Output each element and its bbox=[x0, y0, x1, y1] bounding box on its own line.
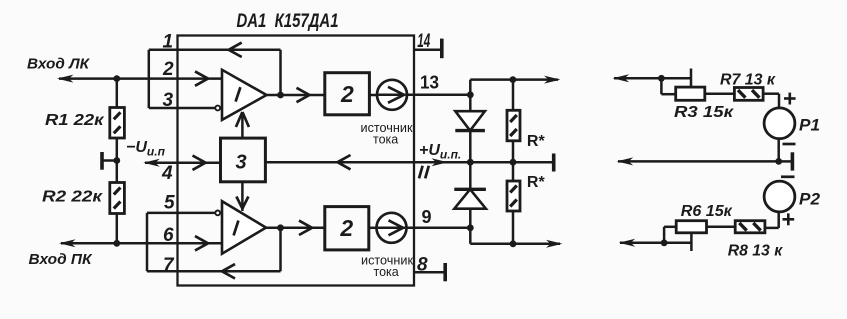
svg-text:тока: тока bbox=[374, 265, 399, 279]
svg-text:Вход ЛК: Вход ЛК bbox=[27, 56, 91, 73]
svg-text:2: 2 bbox=[339, 215, 353, 241]
svg-text:3: 3 bbox=[163, 90, 174, 111]
svg-text:14: 14 bbox=[417, 31, 430, 52]
svg-text:5: 5 bbox=[164, 193, 175, 214]
svg-text:R*: R* bbox=[527, 133, 546, 150]
svg-text:тока: тока bbox=[373, 133, 398, 147]
svg-text:R2 22к: R2 22к bbox=[42, 189, 103, 206]
svg-text:Вход ПК: Вход ПК bbox=[29, 251, 94, 268]
svg-text:4: 4 bbox=[161, 163, 173, 184]
svg-text:+Uи.п.: +Uи.п. bbox=[419, 142, 461, 162]
svg-text:2: 2 bbox=[162, 59, 174, 80]
svg-text:6: 6 bbox=[163, 225, 174, 246]
svg-text:1: 1 bbox=[163, 32, 174, 53]
svg-text:9: 9 bbox=[422, 207, 432, 227]
svg-text:P1: P1 bbox=[799, 116, 820, 135]
svg-text:DA1 К157ДА1: DA1 К157ДА1 bbox=[237, 11, 339, 32]
svg-text:13: 13 bbox=[420, 73, 439, 93]
svg-text:R*: R* bbox=[527, 174, 546, 191]
svg-text:P2: P2 bbox=[799, 190, 821, 209]
svg-text:3: 3 bbox=[235, 152, 246, 174]
svg-text:R8 13 к: R8 13 к bbox=[728, 243, 783, 260]
svg-text:7: 7 bbox=[163, 255, 175, 276]
svg-text:R7 13 к: R7 13 к bbox=[720, 72, 776, 89]
svg-text:R3 15к: R3 15к bbox=[674, 104, 734, 121]
svg-text:R1 22к: R1 22к bbox=[45, 112, 105, 129]
svg-text:−Uи.п: −Uи.п bbox=[126, 139, 166, 159]
svg-text:R6 15к: R6 15к bbox=[681, 203, 733, 220]
svg-text:2: 2 bbox=[340, 81, 354, 107]
svg-text:8: 8 bbox=[417, 255, 428, 276]
